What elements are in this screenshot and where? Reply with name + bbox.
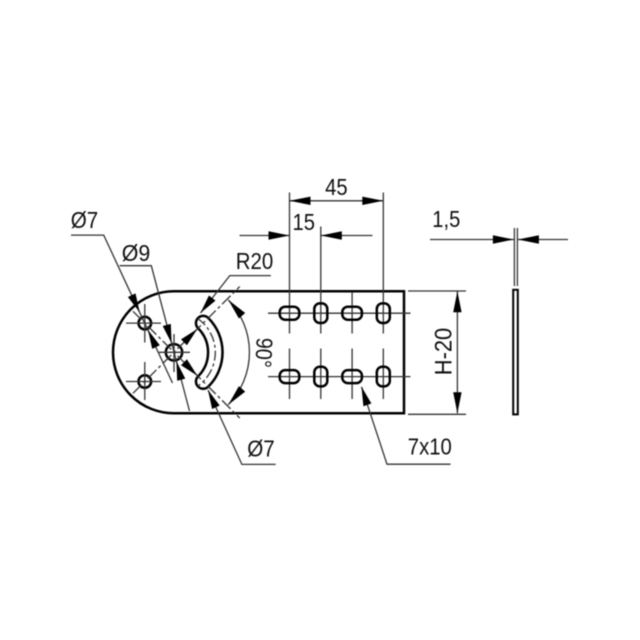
dimension 1,5 line right	[518, 239, 568, 241]
dimension 1,5 line left	[430, 239, 514, 241]
hole phi9 center	[166, 344, 182, 360]
H-20 extension line top	[408, 290, 466, 292]
centerline cross hole phi7 top-left	[126, 304, 161, 343]
leader phi7 top label underline	[71, 235, 173, 383]
dimension 45 arrow left	[290, 197, 311, 205]
slot 7x10 row2 col3 horizontal	[342, 370, 362, 383]
leader phi9 arrow top	[163, 324, 172, 343]
slot 7x10 row1 col3 horizontal	[342, 307, 362, 320]
leader phi7 arrow inner	[148, 330, 160, 349]
H-20 arrow top	[453, 291, 461, 312]
H-20 arrow bottom	[453, 392, 461, 413]
leader R20 arrow	[201, 296, 216, 314]
svg-text:7x10: 7x10	[408, 434, 452, 460]
svg-text:Ø9: Ø9	[122, 240, 151, 266]
svg-text:Ø7: Ø7	[71, 207, 99, 233]
svg-text:R20: R20	[236, 248, 274, 274]
svg-text:H-20: H-20	[431, 328, 458, 376]
slot 7x10 row2 col4 vertical	[377, 367, 390, 387]
leader phi7 bottom arrow	[208, 390, 220, 409]
angular arc arrow bottom	[228, 386, 245, 405]
leader R20 underline	[201, 276, 271, 313]
centerline cross hole phi7 bottom-left	[126, 362, 161, 400]
leader phi7 arrow outer	[128, 293, 140, 312]
dimension 45 arrow right	[362, 197, 383, 205]
slot row2 horizontal centerline	[268, 376, 411, 378]
slot 7x10 row2 col1 horizontal	[280, 370, 300, 383]
slot 7x10 row1 col2 vertical	[314, 303, 327, 323]
H-20 extension line bottom	[408, 413, 466, 415]
dimension 15 arrow left	[269, 231, 290, 239]
leader phi7 bottom underline	[208, 390, 276, 464]
hole phi7 bottom-left	[139, 375, 152, 388]
slot 7x10 row2 col2 vertical	[314, 367, 327, 387]
slot row1 horizontal centerline	[268, 312, 411, 314]
centerline cross hole phi9	[159, 334, 190, 372]
dimension 45 line	[290, 200, 384, 202]
side view extension line right face	[516, 228, 518, 286]
side view thin plate	[513, 290, 518, 415]
dimension 15 arrow right	[321, 231, 342, 239]
curved slot R20	[196, 316, 223, 389]
dimension 1,5 arrow right	[518, 235, 539, 243]
diagonal centerline 45deg (top-left hole to slot bottom end)	[133, 311, 240, 418]
column 3 centerline	[351, 292, 353, 399]
leader 7x10 arrow	[362, 387, 372, 406]
side view extension line left face	[513, 228, 515, 286]
svg-text:45: 45	[325, 174, 348, 200]
slot 7x10 row1 col1 horizontal	[280, 307, 300, 320]
leader phi9 arrow bottom	[176, 361, 185, 380]
hole phi7 top-left	[139, 317, 152, 330]
dimension 1,5 arrow left	[493, 235, 514, 243]
angular arc arrow top	[228, 300, 245, 319]
leader phi9 label underline	[120, 266, 190, 411]
column 2 centerline / extension	[320, 227, 322, 400]
slot centerline arc dash-dot	[198, 318, 216, 386]
H-20 dimension line	[456, 291, 458, 413]
column 4 centerline / extension	[382, 193, 384, 400]
leader 7x10 underline	[362, 387, 451, 464]
angular dimension 90deg arc	[228, 300, 249, 405]
column 1 centerline / extension	[289, 193, 291, 400]
slot end arrow upper (on -45 diagonal)	[181, 329, 197, 345]
dimension 15 line	[240, 235, 373, 237]
slot end arrow lower (on +45 diagonal)	[181, 359, 197, 375]
diagonal centerline -45deg (bottom-left hole to slot top end)	[133, 287, 240, 394]
plate outline (main front view)	[113, 291, 404, 413]
svg-text:1,5: 1,5	[432, 206, 460, 232]
svg-text:15: 15	[293, 209, 316, 235]
slot 7x10 row1 col4 vertical	[377, 303, 390, 323]
svg-text:Ø7: Ø7	[247, 436, 275, 462]
svg-text:90°: 90°	[250, 337, 278, 368]
